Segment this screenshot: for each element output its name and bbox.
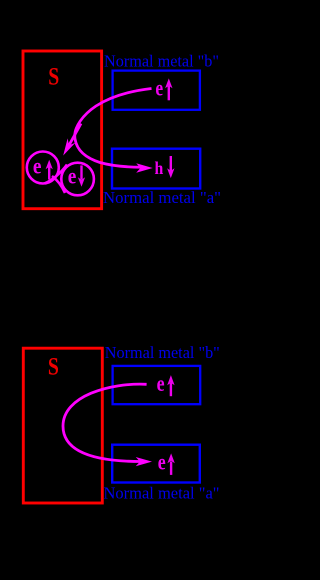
spin-up arrow (box a, bottom figure) bbox=[167, 453, 174, 475]
arrowhead at e (box a, bottom figure) bbox=[136, 457, 152, 466]
svg-text:Normal metal "a": Normal metal "a" bbox=[104, 483, 220, 502]
svg-text:Normal metal "b": Normal metal "b" bbox=[105, 343, 220, 362]
spin-up arrow (left pair circle) bbox=[46, 160, 53, 180]
superconductor box S (top figure) bbox=[23, 51, 102, 209]
spin-down arrow (right pair circle) bbox=[78, 165, 85, 186]
trajectory curve e to h through S (top figure) bbox=[75, 89, 152, 168]
spin-up arrow (box b, top figure) bbox=[165, 78, 172, 100]
normal metal box a (top figure) bbox=[112, 149, 200, 189]
spin-down arrow (box a, top figure) bbox=[167, 156, 174, 178]
superconductor box S (bottom figure) bbox=[23, 348, 102, 503]
spin-up arrow (box b, bottom figure) bbox=[167, 375, 174, 396]
arrowhead at Cooper pair (top figure) bbox=[63, 138, 75, 155]
Cooper pair circle right (top figure) bbox=[61, 163, 94, 196]
svg-text:S: S bbox=[48, 63, 59, 90]
link stroke upper (between pair circles, top figure) bbox=[45, 165, 68, 184]
normal metal box b (top figure) bbox=[113, 71, 200, 110]
normal metal box a (bottom figure) bbox=[112, 445, 200, 483]
Cooper pair circle left (top figure) bbox=[27, 152, 59, 184]
branch arrow to Cooper pair (top figure) bbox=[68, 124, 82, 149]
svg-text:Normal metal "b": Normal metal "b" bbox=[104, 52, 219, 71]
arrowhead at h (top figure) bbox=[136, 163, 153, 172]
svg-text:e: e bbox=[33, 153, 42, 178]
normal metal box b (bottom figure) bbox=[113, 366, 201, 404]
svg-text:e: e bbox=[155, 75, 163, 100]
tunneling curve e(b) to e(a) through S (bottom figure) bbox=[63, 384, 147, 461]
svg-text:h: h bbox=[155, 158, 164, 178]
svg-text:e: e bbox=[158, 449, 166, 474]
link stroke lower (between pair circles, top figure) bbox=[52, 176, 65, 193]
svg-text:e: e bbox=[157, 371, 165, 396]
svg-text:S: S bbox=[48, 354, 59, 381]
svg-text:e: e bbox=[68, 163, 77, 188]
svg-text:Normal metal "a": Normal metal "a" bbox=[103, 188, 221, 207]
